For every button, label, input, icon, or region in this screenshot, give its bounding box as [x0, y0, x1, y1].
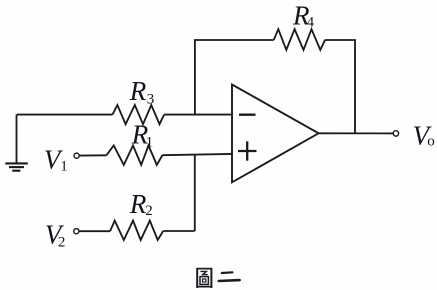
- op-amp U1: [232, 85, 319, 183]
- wire: from R3 to op-amp inverting input: [164, 114, 232, 116]
- wire: op-amp output to terminal: [319, 132, 394, 134]
- resistor R4: [274, 1, 325, 50]
- svg-text:R: R: [129, 189, 147, 219]
- svg-text:R: R: [129, 76, 147, 106]
- wire: top segment from R4 to right vertical down to output: [325, 40, 355, 133]
- node V2 input terminal: [45, 219, 79, 250]
- svg-text:2: 2: [145, 203, 153, 219]
- node V1 input terminal: [44, 145, 79, 175]
- svg-text:o: o: [427, 133, 435, 149]
- wire: junction vertical from non-inverting line down to R2 line: [194, 155, 196, 231]
- ground: [5, 115, 28, 171]
- caption 圖 (figure): [196, 268, 212, 288]
- wire: from R1 to op-amp non-inverting input: [162, 154, 232, 155]
- resistor R1: [106, 120, 162, 165]
- caption 二 (two): [219, 272, 240, 281]
- svg-text:1: 1: [60, 158, 68, 174]
- resistor R2: [110, 189, 163, 240]
- svg-text:1: 1: [146, 134, 154, 150]
- svg-text:3: 3: [147, 91, 155, 107]
- resistor R3: [113, 76, 165, 124]
- svg-text:4: 4: [307, 15, 315, 31]
- svg-text:2: 2: [58, 235, 66, 251]
- node Vo output terminal: [393, 121, 435, 151]
- wire: from V2 terminal to R2: [79, 230, 110, 232]
- wire: feedback net left vertical + top segment to R4: [195, 40, 274, 115]
- wire: from R2 to junction corner: [163, 230, 195, 232]
- wire: inverting input line from ground corner to R3: [17, 114, 113, 116]
- wire: from V1 terminal to R1: [80, 154, 107, 156]
